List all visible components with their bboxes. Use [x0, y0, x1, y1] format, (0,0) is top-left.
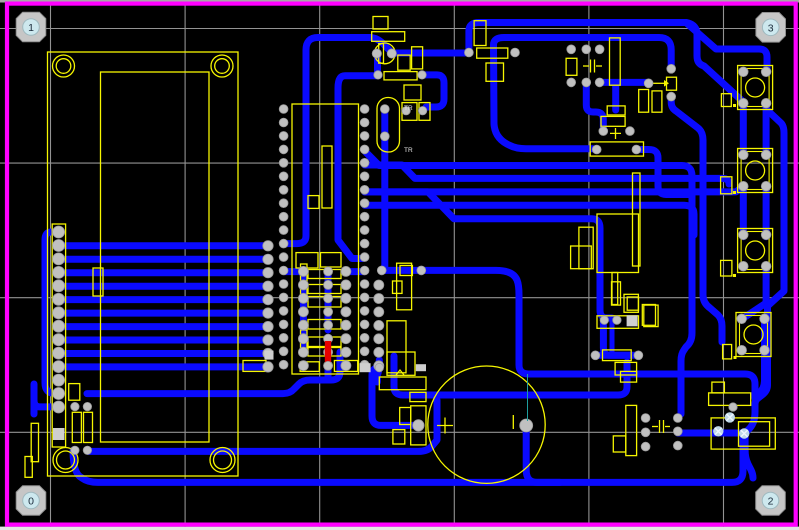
cap symbol H: [652, 420, 670, 433]
rect y270: [400, 266, 412, 276]
wire cluster pads link: [325, 367, 332, 378]
rect e5: [411, 406, 426, 445]
resistor R7 body: [603, 350, 632, 361]
rect C7 tall: [610, 38, 621, 85]
wire D1 to R2: [374, 54, 381, 75]
wire LCD data 1: [59, 242, 268, 249]
rect bl3: [84, 412, 93, 442]
rect r2: [642, 305, 655, 326]
cluster vbar a: [301, 264, 308, 296]
rect C3: [486, 63, 504, 81]
wire cap C8 bracket: [372, 360, 418, 425]
wire LCD data 2: [59, 256, 268, 263]
U1 small rect: [308, 196, 319, 209]
bar row0 b: [321, 253, 342, 267]
J4 col b: [673, 414, 682, 450]
bl pads: [71, 402, 92, 454]
R7 pads: [591, 351, 643, 360]
rect b2: [621, 371, 637, 382]
rect bl1: [69, 384, 80, 401]
connector J1 outline: [52, 224, 65, 447]
rect x2: [709, 393, 751, 406]
wire LCD data 8: [59, 337, 268, 344]
wire U1-f1: [365, 151, 692, 414]
rect x1: [712, 382, 725, 393]
wire bottom-left 394: [87, 352, 340, 394]
U1 bar: [322, 146, 332, 208]
wire D1 to U1 pin: [284, 38, 392, 244]
wire xtal row: [678, 430, 744, 437]
pushbutton SW1: [738, 66, 773, 110]
wire SW2-SW3 left: [740, 186, 747, 237]
rect D1 aux: [398, 55, 410, 70]
svg-text:TR: TR: [404, 147, 413, 154]
wire top mid stub: [612, 84, 619, 110]
fiducial marker 0 (bottom-left): [16, 486, 46, 516]
wire Y1 bus down right: [382, 270, 755, 398]
SW3 aux rect: [721, 260, 732, 276]
SW4 aux rect: [723, 345, 732, 359]
wire bottom mid pads: [595, 352, 638, 359]
ratsnest red mark: [325, 341, 331, 363]
resistor R1 body: [477, 48, 508, 58]
rect b1: [615, 362, 637, 375]
wire LCD data 6: [59, 310, 268, 317]
wire C2 to top rail 2: [494, 38, 672, 149]
cluster vbar b: [301, 330, 308, 352]
buzzer center pad: [520, 419, 533, 432]
wire SW1 right edge down: [745, 103, 784, 433]
wire LCD data 3: [59, 269, 268, 276]
resistor R2 body: [384, 72, 417, 80]
wire J1 pin1 to pin13: [45, 232, 59, 393]
smd pads light squares: [265, 351, 427, 373]
rect pair b: [652, 91, 662, 112]
rect v3: [644, 305, 658, 327]
Q1 pads: [599, 127, 634, 136]
svg-text:1: 1: [28, 22, 34, 34]
vertical bar C9: [626, 405, 637, 455]
U1 right pads: [360, 105, 369, 370]
svg-text:TR: TR: [404, 105, 413, 112]
teal ratsnest line: [527, 374, 529, 421]
LCD mount hole bottom-left: [53, 448, 78, 473]
resistor bar 1: [308, 270, 341, 279]
cap C8 pad: [413, 420, 424, 431]
crystal X1 selected pads: [725, 412, 735, 422]
J4 col a: [641, 414, 650, 451]
SW2 aux rect: [721, 177, 732, 194]
wire SW3 to SW4: [742, 266, 766, 319]
wire SW1 BL to SW2 TL: [740, 103, 747, 155]
rect near Y1 a: [402, 103, 417, 121]
svg-text:3: 3: [768, 22, 774, 34]
wire buzzer pos down: [526, 426, 560, 483]
rect e2: [379, 377, 426, 390]
U3 tab a: [571, 246, 592, 269]
buzzer plus mark: [437, 418, 453, 434]
rect bl4: [25, 457, 32, 478]
cluster col 379: [374, 280, 384, 371]
tall rect U2b: [387, 321, 406, 373]
RV1 pads: [644, 64, 675, 101]
rect near Y1 b: [419, 103, 430, 121]
wire cluster v2: [325, 271, 332, 330]
wire C5 down: [586, 82, 603, 131]
U3 tab b: [579, 227, 593, 269]
LCD glass outline: [101, 72, 210, 442]
U2a inner: [393, 281, 403, 293]
rect bl5: [31, 423, 38, 461]
resistor bar 2: [308, 285, 341, 294]
rect e6: [393, 430, 405, 444]
pushbutton SW4: [736, 313, 771, 357]
wire LCD data 5: [59, 296, 268, 303]
fiducial marker 2 (bottom-right): [756, 486, 786, 516]
buzzer BZ1 circle: [428, 366, 545, 483]
rect e1 squiggle: [387, 352, 415, 375]
rect r1: [627, 297, 638, 310]
wire U3 out down: [603, 322, 630, 356]
oval Y1 outline: [377, 98, 400, 153]
oval Y1 pads: [380, 105, 389, 141]
wire LCD data 9: [59, 350, 268, 357]
wire C3 stub: [422, 75, 444, 107]
rect C4 tall: [474, 21, 486, 46]
wire LCD data 4: [59, 283, 268, 290]
fiducial marker 1 (top-left): [16, 12, 46, 42]
rect C2: [412, 47, 423, 69]
xtal pad: [729, 403, 737, 411]
pad over red: [324, 361, 333, 370]
row y270: [377, 266, 425, 275]
SW4 pads: [737, 314, 769, 355]
cluster frame c: [243, 361, 266, 372]
diode D1 circle: [374, 43, 395, 64]
J1 pin16 square pad: [53, 428, 65, 440]
crystal X1 outline: [711, 418, 775, 449]
D1 pads: [372, 49, 396, 58]
resistor bar 4: [308, 320, 341, 330]
header strip right: [633, 173, 641, 266]
wire pad to trimpot row: [600, 79, 649, 86]
SW1 aux rect: [721, 94, 731, 107]
wire cluster v1: [300, 271, 307, 352]
U3 pin bar: [612, 273, 618, 305]
rect pair a: [639, 90, 649, 113]
window strip top: [0, 0, 799, 3]
J1 pads: [53, 226, 65, 413]
wire U1-f3: [365, 186, 744, 192]
wire xtal to GND: [745, 434, 753, 479]
U3 pad frame: [597, 316, 639, 329]
wire J1 pin14 hook: [34, 384, 59, 414]
rect v1: [612, 282, 621, 305]
svg-text:0: 0: [28, 496, 34, 508]
wire SW1 BR to SW2 TR: [763, 103, 770, 155]
rect C1: [373, 17, 388, 30]
cluster col 303: [298, 266, 308, 370]
resistor bar 3: [308, 297, 341, 308]
LCD module outline: [48, 52, 239, 476]
capacitor C6 symbol: [583, 60, 602, 73]
cluster frame b: [334, 361, 357, 372]
R4 pads: [592, 145, 641, 154]
SW3 pads: [739, 230, 771, 271]
SW1 pads: [739, 67, 771, 108]
wire trimpot down: [671, 97, 722, 342]
U3 pads: [600, 316, 621, 324]
rect R0: [372, 32, 405, 42]
resistor R4 body: [590, 142, 643, 156]
SW2 pads: [739, 150, 771, 191]
buzzer pin mark: [512, 415, 514, 429]
bar row0 a: [296, 253, 318, 268]
wire D1 cathode to U1: [338, 76, 379, 259]
wire SW4 right col: [757, 319, 765, 395]
resistor bar 5: [308, 337, 341, 347]
wire Y1 through: [381, 109, 388, 270]
wire D1-R1: [392, 50, 465, 57]
C5 pads: [567, 45, 604, 87]
J2 pads: [263, 241, 273, 372]
cluster col 345: [341, 266, 351, 370]
rect bl6: [93, 268, 103, 296]
pads near Y1: [402, 107, 427, 115]
cap C8 pad2: [375, 363, 383, 371]
cluster col 328: [324, 267, 333, 370]
U3 outline: [597, 214, 639, 273]
tall rect U2a: [397, 263, 412, 310]
pushbutton SW3: [738, 229, 773, 273]
wire row270 links: [284, 268, 365, 275]
U3 square pad: [627, 315, 638, 326]
rect e4: [400, 408, 411, 425]
wire pad379 down: [377, 367, 379, 382]
wire bottom 451: [88, 400, 437, 451]
rect above Y1a: [404, 85, 421, 100]
window strip bottom: [0, 527, 799, 530]
R1 pads: [465, 48, 520, 57]
LCD mount hole top-right: [211, 55, 233, 77]
rect e3: [410, 392, 426, 401]
wire GND bottom: [73, 434, 745, 483]
wire R4 right: [636, 150, 690, 195]
U1 DIP outline: [292, 104, 359, 374]
wire U1-f2: [365, 165, 729, 184]
rect bl2: [72, 412, 81, 442]
transistor Q1 body: [601, 106, 625, 139]
wire LCD data 7: [59, 323, 268, 330]
trimpot RV1: [652, 77, 677, 90]
wire LCD data 10: [59, 363, 268, 370]
wire rail branch to SW1: [686, 23, 743, 102]
cluster frame a: [300, 362, 319, 372]
wire U1-f5 to U3: [365, 205, 612, 318]
rect v2: [624, 294, 638, 312]
pushbutton SW2: [738, 149, 773, 193]
R2 pads: [374, 71, 426, 79]
wire SW2-SW3 right: [763, 186, 770, 237]
wire U1-f4: [365, 192, 694, 235]
rect b3: [613, 436, 626, 452]
wire buzzer feed: [394, 356, 627, 395]
LCD mount hole top-left: [53, 55, 75, 77]
resistor bar 6: [308, 348, 341, 357]
U1 left pads: [279, 105, 288, 370]
wire ldo col2: [610, 318, 615, 356]
LCD mount hole bottom-right: [210, 448, 235, 473]
crystal X1 inner: [739, 422, 770, 447]
wire R1 up to top rail: [469, 23, 767, 72]
fiducial marker 3 (top-right): [756, 13, 786, 43]
svg-text:2: 2: [768, 496, 774, 508]
rect C5: [566, 58, 577, 75]
